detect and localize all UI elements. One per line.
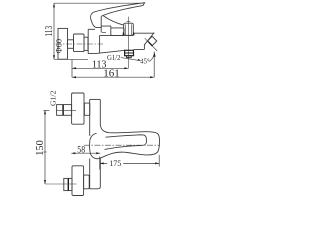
svg-text:G1/2: G1/2 — [107, 53, 121, 62]
svg-text:175: 175 — [109, 158, 121, 168]
svg-text:Φ60: Φ60 — [54, 39, 63, 54]
svg-text:150: 150 — [35, 140, 46, 156]
svg-text:58: 58 — [77, 145, 85, 155]
svg-text:113: 113 — [44, 26, 55, 37]
svg-text:161: 161 — [103, 68, 120, 79]
svg-text:G1/2: G1/2 — [49, 90, 58, 106]
svg-text:45°: 45° — [140, 58, 149, 66]
